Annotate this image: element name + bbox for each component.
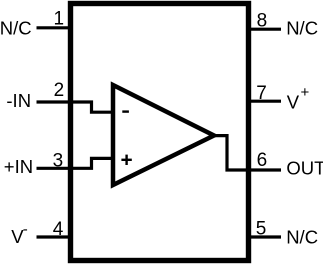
svg-text:4: 4 bbox=[53, 219, 64, 240]
wire pin 7 lead bbox=[249, 100, 282, 103]
wire op-amp output to pin 6 lead bbox=[209, 136, 281, 170]
svg-text:6: 6 bbox=[257, 150, 268, 171]
wire pin 1 lead bbox=[37, 26, 71, 29]
wire pin 5 lead bbox=[249, 235, 282, 238]
svg-text:2: 2 bbox=[54, 80, 65, 101]
wire pin 4 lead bbox=[37, 235, 71, 238]
svg-text:5: 5 bbox=[256, 218, 267, 239]
svg-text:1: 1 bbox=[54, 9, 65, 30]
svg-text:-: - bbox=[23, 221, 28, 238]
svg-text:7: 7 bbox=[256, 83, 267, 104]
op-amp inverting input marker - bbox=[122, 110, 129, 112]
wire pin 8 lead bbox=[249, 28, 282, 31]
svg-text:V: V bbox=[287, 92, 300, 113]
svg-text:N/C: N/C bbox=[286, 227, 318, 248]
op-amp non-inverting input marker + bbox=[121, 155, 131, 165]
svg-text:3: 3 bbox=[53, 150, 64, 171]
svg-text:N/C: N/C bbox=[286, 18, 318, 39]
wire pin 2 lead to inverting input bbox=[37, 102, 113, 112]
svg-text:N/C: N/C bbox=[0, 18, 32, 39]
wire pin 3 lead to non-inverting input bbox=[37, 158, 113, 168]
label V- pin 4 bbox=[11, 221, 27, 247]
label V+ pin 7 bbox=[287, 84, 310, 113]
IC package body U1 bbox=[71, 4, 249, 261]
svg-text:+: + bbox=[301, 84, 310, 101]
svg-text:+IN: +IN bbox=[4, 156, 33, 177]
op-amp U1 bbox=[113, 85, 214, 185]
svg-text:8: 8 bbox=[257, 10, 268, 31]
svg-text:OUT: OUT bbox=[286, 158, 323, 179]
svg-text:-IN: -IN bbox=[6, 90, 31, 111]
